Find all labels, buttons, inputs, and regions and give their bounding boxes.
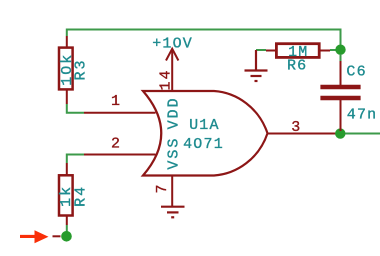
svg-text:1: 1	[111, 93, 121, 110]
wire R6 to junction	[330, 49, 340, 51]
resistor R4	[59, 163, 73, 225]
power symbol +10V arrow	[166, 49, 178, 61]
pin 14 line	[171, 49, 173, 91]
ground symbol near R6	[245, 50, 268, 81]
svg-text:R3: R3	[72, 58, 89, 80]
svg-text:U1A: U1A	[189, 117, 220, 134]
ground symbol under gate	[161, 207, 185, 218]
svg-text:R4: R4	[72, 185, 89, 207]
gate U1A (4071 OR gate) body	[143, 91, 268, 176]
svg-text:VSS: VSS	[166, 137, 183, 170]
wire stub left of node	[53, 235, 61, 237]
svg-text:C6: C6	[346, 63, 366, 80]
svg-text:4O71: 4O71	[183, 136, 224, 153]
svg-text:47n: 47n	[347, 106, 378, 123]
junction node output	[335, 128, 345, 138]
pin 2 of U1A	[84, 154, 156, 156]
svg-text:VDD: VDD	[166, 96, 183, 129]
capacitor C6	[320, 61, 360, 131]
resistor R3	[59, 36, 73, 104]
junction node bottom-left	[61, 231, 72, 242]
svg-text:R6: R6	[287, 58, 307, 75]
wire R4 bottom to node	[66, 225, 68, 232]
junction node top right	[335, 45, 345, 55]
svg-text:14: 14	[158, 68, 175, 90]
svg-text:7: 7	[154, 182, 171, 193]
ERC marker arrow	[20, 230, 49, 243]
svg-text:2: 2	[111, 135, 121, 152]
wire output to right edge	[340, 133, 380, 135]
wire R4 to pin2	[67, 155, 84, 164]
wire junction to C6	[340, 54, 342, 61]
pin 7 line	[171, 176, 173, 207]
wire R6 left to ground	[256, 49, 266, 51]
svg-text:+1OV: +1OV	[152, 36, 193, 53]
pin 1 of U1A	[84, 112, 156, 114]
pin 3 line	[268, 133, 341, 135]
resistor R6	[266, 44, 330, 58]
wire R3 to pin1	[67, 104, 84, 113]
wire top from R3 to right column	[67, 30, 341, 46]
svg-text:3: 3	[291, 119, 301, 136]
